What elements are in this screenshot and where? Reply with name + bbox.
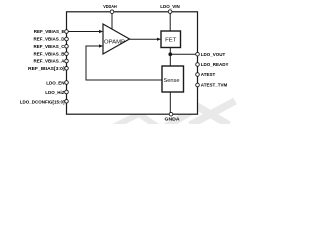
pin LDO_VOUT [196,52,200,56]
pin ATEST [196,73,200,77]
wire FET to Sense [169,48,171,67]
pin ATEST_TVM [196,83,200,87]
pin REF_VBIAS_D [65,37,69,41]
svg-text:REF_VBIAS_E: REF_VBIAS_E [34,29,65,34]
svg-text:OPAMP: OPAMP [104,39,126,45]
pin LDO_READY [196,63,200,67]
wire node to LDO_VOUT [170,53,197,55]
svg-text:REF_VBIAS_C: REF_VBIAS_C [33,44,65,49]
svg-text:GNDA: GNDA [165,117,181,122]
pin REF_VBIAS_C [65,45,69,49]
wire Sense to GNDA [169,92,171,114]
wire REF_VBIAS_E to opamp + input [68,31,100,33]
Sense block [162,66,184,92]
watermark [113,101,235,127]
svg-text:LDO_HiZ: LDO_HiZ [45,90,65,95]
svg-text:REF_VBIAS_B: REF_VBIAS_B [33,51,65,56]
svg-text:LDO_VIN: LDO_VIN [160,4,180,9]
node junction dot [168,52,172,56]
svg-text:LDO_VOUT: LDO_VOUT [201,52,226,57]
main block outline [67,12,198,114]
svg-text:LDO_READY: LDO_READY [201,62,229,67]
wire LDO_VIN to FET [169,12,171,31]
svg-text:REF_IBIAS[3:0]: REF_IBIAS[3:0] [28,66,65,71]
pin LDO_HiZ [65,90,69,94]
svg-text:ATEST_TVM: ATEST_TVM [201,83,228,88]
svg-text:ATEST: ATEST [201,72,216,77]
pin REF_VBIAS_A [65,59,69,63]
pin LDO_VIN [168,10,172,14]
pin REF_VBIAS_B [65,52,69,56]
op-amp OPAMP [103,24,130,54]
pin REF_VBIAS_E [65,30,69,34]
svg-text:LDO_EN: LDO_EN [46,81,64,86]
pin GNDA [169,112,173,116]
FET block [161,31,181,48]
svg-text:REF_VBIAS_D: REF_VBIAS_D [33,37,65,42]
wire feedback from Sense to opamp - input [86,46,162,80]
pin LDO_DCONFIG[15:0] [65,100,69,104]
wire opamp output to FET [130,38,158,40]
svg-text:VDDAH: VDDAH [103,4,117,9]
svg-text:FET: FET [165,37,176,43]
pin REF_IBIAS[3:0] [65,67,69,71]
svg-text:REF_VBIAS_A: REF_VBIAS_A [33,59,65,64]
pin LDO_EN [65,81,69,85]
pin VDDAH [110,10,114,14]
svg-text:Sense: Sense [164,78,180,84]
svg-text:LDO_DCONFIG[15:0]: LDO_DCONFIG[15:0] [20,99,65,104]
wire VDDAH to opamp [111,12,113,30]
